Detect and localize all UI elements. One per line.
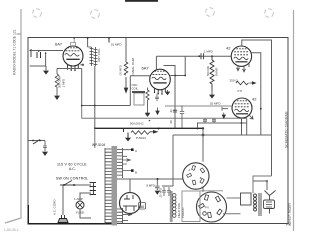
capacitor ant series: [37, 51, 41, 59]
svg-text:2 MEG. OHM: 2 MEG. OHM: [131, 57, 135, 76]
node dot: [266, 180, 268, 182]
top binder mark: [125, 0, 158, 2]
filter cap 8mfd: [155, 179, 159, 190]
punch hole 2: [91, 10, 100, 19]
wire bus to transformer: [94, 128, 96, 148]
junction: [197, 127, 199, 129]
cap hang 4: [212, 118, 216, 123]
tone cap branch: [180, 106, 184, 128]
wire bus y105: [82, 105, 131, 107]
osc padder box: [134, 93, 144, 105]
node dot right: [260, 108, 262, 110]
wire switch to terminals: [76, 184, 91, 186]
wire V3 right vertical: [271, 40, 273, 176]
cathode resistor V1: [55, 69, 59, 96]
speaker: [264, 191, 276, 214]
svg-text:B: B: [200, 176, 202, 180]
wire socket top: [202, 128, 204, 162]
node dot: [45, 52, 47, 54]
svg-text:42: 42: [226, 46, 231, 51]
wire: [45, 53, 47, 66]
wire coil right drop: [94, 66, 96, 128]
detector wire y106: [165, 105, 232, 107]
ground cathode: [55, 96, 59, 99]
wire V4 bottom: [241, 118, 243, 135]
svg-text:P-5044: P-5044: [136, 136, 146, 140]
node y106 b: [181, 105, 183, 107]
svg-text:A.C.: A.C.: [69, 167, 76, 171]
node dot: [175, 75, 177, 77]
svg-text:500,000 Ω: 500,000 Ω: [130, 122, 144, 126]
node 8mfd: [157, 178, 159, 180]
svg-text:P K: P K: [205, 206, 209, 210]
svg-text:.1 MFD: .1 MFD: [203, 50, 214, 54]
wire V2 grid horizontal: [130, 75, 150, 77]
grid cap bracket: [71, 38, 76, 46]
punch hole 1: [33, 9, 42, 18]
wire top right link: [253, 181, 267, 190]
svg-text:500,000: 500,000: [206, 65, 210, 76]
caps under V2: [155, 94, 159, 102]
wire plate riser: [184, 56, 186, 75]
wire V1 plate drop: [81, 69, 83, 106]
wave trap comp: [43, 141, 47, 152]
schematic border: [28, 38, 288, 224]
antenna terminal: [30, 49, 34, 57]
svg-text:6A7: 6A7: [55, 42, 63, 47]
wire osc vertical: [125, 38, 127, 62]
svg-text:42: 42: [252, 97, 257, 102]
node dot bus: [158, 128, 160, 130]
page edge right: [293, 10, 295, 231]
wire y118: [82, 117, 247, 119]
secondary winding bottom: [117, 208, 132, 224]
grid bracket V3: [251, 53, 260, 135]
ground osc: [145, 113, 149, 116]
wire osc grid drop: [129, 76, 131, 106]
svg-text:.05: .05: [169, 120, 173, 124]
svg-text:A.C. CORD: A.C. CORD: [53, 199, 57, 215]
plug: [58, 215, 68, 223]
svg-text:.1 MFD: .1 MFD: [62, 79, 66, 88]
svg-text:OHMS: OHMS: [215, 67, 219, 76]
svg-text:8 MFD: 8 MFD: [147, 184, 155, 188]
output assembly box: [182, 191, 200, 222]
tube V4 42: [232, 98, 252, 118]
svg-text:PHILCO: PHILCO: [181, 207, 185, 218]
resistor R osc: [124, 62, 128, 75]
junction y105 b: [94, 105, 96, 107]
field coil core: [170, 191, 173, 222]
margin tick: [17, 33, 21, 35]
svg-text:WP-5104: WP-5104: [92, 143, 106, 147]
left small comp V4: [222, 107, 228, 111]
arrow osc: [124, 77, 127, 93]
osc padder bar: [132, 91, 145, 93]
svg-text:RADIO MODEL 71 CODE 121: RADIO MODEL 71 CODE 121: [13, 29, 17, 75]
wire rect top: [117, 179, 183, 193]
secondary winding top: [117, 148, 123, 178]
junction heavy: [202, 127, 204, 129]
svg-text:115 V 60 CYCLE: 115 V 60 CYCLE: [57, 163, 87, 167]
punch hole 4: [265, 9, 274, 18]
pins V3: [237, 63, 250, 72]
svg-text:.05 MFD: .05 MFD: [119, 65, 123, 76]
wire V3 plate top: [242, 40, 272, 46]
junction: [87, 37, 89, 39]
output transformer: [241, 193, 262, 216]
pot wiper tick: [123, 129, 125, 133]
wire y123 loop: [198, 118, 247, 135]
terminal dots: [90, 182, 92, 184]
cap hang 3: [203, 118, 207, 123]
fuse: [76, 201, 84, 209]
svg-text:6A7: 6A7: [142, 66, 150, 71]
wire ant input: [31, 50, 63, 52]
wire socket bottom link: [202, 188, 204, 193]
ground wave trap: [43, 152, 47, 155]
power switch: [60, 181, 76, 186]
wire V2 top: [155, 56, 157, 69]
svg-text:.25 MFD: .25 MFD: [159, 188, 163, 198]
coupling capacitor: [201, 53, 204, 59]
page edge left: [5, 9, 21, 223]
arrow 250: [252, 81, 257, 85]
cap bars on x175: [173, 110, 177, 112]
ground V2: [166, 90, 170, 95]
main bus y128.5: [94, 127, 203, 129]
wire V2 plate right: [170, 75, 185, 77]
svg-text:.01 MFD: .01 MFD: [110, 42, 122, 46]
small caps cluster: [162, 187, 171, 196]
junction tick: [108, 38, 110, 43]
node dot: [211, 55, 213, 57]
coupling wire y56: [156, 55, 231, 57]
wire box to socket2: [200, 190, 223, 192]
pot wiper: [127, 133, 129, 138]
wire drop x173: [162, 135, 173, 186]
secondary leads: [123, 150, 132, 171]
svg-text:L-50-30-1: L-50-30-1: [4, 228, 19, 232]
svg-text:80: 80: [140, 204, 145, 209]
socket view S2: [197, 192, 227, 222]
rectifier tube 80: [120, 193, 141, 214]
node dot: [184, 75, 186, 77]
ground 500k: [210, 90, 214, 98]
wire coil top link: [88, 46, 92, 48]
tube V3 42: [231, 46, 251, 66]
wire V1 pins bottom: [57, 68, 82, 70]
junction y105 a: [81, 105, 83, 107]
junction V4: [241, 122, 243, 124]
grid bracket V2: [164, 66, 176, 129]
arrow above bus: [156, 108, 159, 115]
resistor osc cathode: [146, 88, 149, 113]
svg-text:.01: .01: [169, 109, 173, 113]
wire top drop: [87, 38, 89, 47]
arrow on y123: [222, 113, 225, 119]
band switch left: [29, 140, 46, 142]
switch blade: [33, 140, 40, 145]
node y106 a: [174, 105, 176, 107]
svg-text:.02 MFD: .02 MFD: [209, 102, 221, 106]
tube V1 6A7: [63, 46, 84, 71]
primary terminal bars: [91, 183, 96, 195]
field coil loops: [173, 194, 176, 218]
socket view S1: [183, 163, 209, 189]
junction small: [149, 120, 151, 122]
svg-text:ANT COIL: ANT COIL: [97, 48, 101, 62]
fuse leads: [80, 193, 91, 218]
ground pot: [126, 138, 130, 141]
svg-text:1 AMP: 1 AMP: [74, 197, 83, 201]
transformer core: [112, 146, 118, 226]
pot arrow: [153, 130, 159, 134]
svg-text:FUSE: FUSE: [76, 211, 84, 215]
junction top cap: [73, 37, 75, 39]
border corner dark: [28, 205, 112, 224]
label 80: [139, 203, 146, 210]
junction heavy 2: [202, 134, 205, 137]
svg-text:SW ON CONTROL: SW ON CONTROL: [56, 177, 89, 181]
antenna coil T1: [90, 47, 98, 66]
punch hole 3: [206, 8, 215, 17]
ground ant: [44, 66, 48, 74]
wire socket2 right: [223, 198, 241, 214]
wire switch down: [62, 185, 64, 215]
wire y135: [173, 134, 272, 136]
svg-text:P P: P P: [238, 89, 243, 93]
svg-text:A: A: [189, 168, 191, 172]
tube V2 6A7: [150, 69, 171, 95]
svg-text:A: A: [135, 149, 137, 153]
cathode arrow V4: [250, 116, 254, 120]
node dot: [198, 55, 200, 57]
ground 8mfd: [155, 191, 159, 194]
svg-text:COIL: COIL: [132, 86, 139, 90]
svg-text:B: B: [135, 171, 137, 175]
wire y118 riser: [81, 106, 83, 119]
primary winding: [105, 148, 112, 224]
wire: [30, 65, 46, 67]
resistor 500k vertical: [210, 56, 214, 90]
lead end squares: [131, 148, 134, 151]
wire right vert to output: [253, 176, 272, 193]
